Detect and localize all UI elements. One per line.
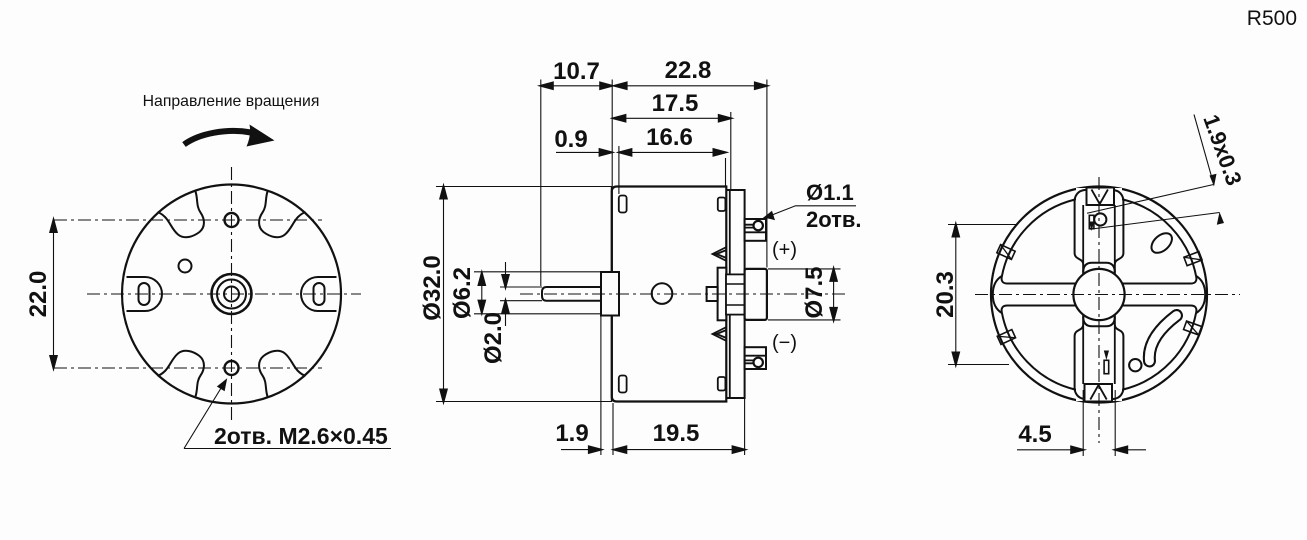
- svg-text:22.0: 22.0: [25, 271, 52, 318]
- svg-text:17.5: 17.5: [652, 90, 699, 117]
- opening bottom-left: [1002, 306, 1084, 390]
- left ear D shape: [127, 277, 163, 311]
- dim ext line can front: [618, 146, 620, 194]
- bearing flange: [718, 268, 727, 321]
- part number R500: [1247, 7, 1297, 30]
- svg-text:4.5: 4.5: [1018, 421, 1051, 448]
- end cap seam: [729, 190, 731, 398]
- top hole centerline: [54, 219, 322, 221]
- cap crimp chevron top: [713, 247, 727, 261]
- oval vent top-right: [1148, 229, 1176, 256]
- stamped vent blob top-left: [158, 192, 204, 238]
- stamped vent blob top-right: [259, 192, 305, 238]
- center shaft boss rings: [212, 274, 252, 314]
- svg-text:1.9: 1.9: [555, 420, 588, 447]
- svg-text:20.3: 20.3: [932, 271, 959, 318]
- stamped vent blob bottom-left: [158, 351, 204, 397]
- dim 17.5: [613, 117, 730, 119]
- plus terminal label: [772, 239, 797, 261]
- can crimp window rear top: [718, 198, 726, 212]
- dim ext line cap seam: [730, 112, 732, 190]
- rotation direction arrow: [184, 131, 251, 145]
- dim 22.0 line: [53, 220, 55, 368]
- rear bushing Ø7.5: [745, 269, 767, 320]
- rim crimp notch bottom-left: [997, 330, 1015, 345]
- terminal slot top: [1089, 215, 1094, 228]
- shaft Ø2.0: [542, 287, 601, 301]
- svg-text:10.7: 10.7: [553, 58, 600, 85]
- bar end flare right: [1191, 278, 1205, 312]
- left ear slot: [139, 283, 150, 305]
- dim 19.5 bottom: [744, 399, 746, 455]
- dim Ø32.0 ext lines: [436, 187, 612, 402]
- dim Ø7.5 ext lines: [768, 269, 841, 320]
- dim 1.9 bottom: [600, 317, 602, 456]
- band end flare bottom: [1076, 388, 1122, 401]
- svg-text:Ø32.0: Ø32.0: [419, 255, 446, 320]
- dim Ø6.2: [481, 272, 483, 314]
- centerline horizontal: [87, 293, 361, 295]
- centerline horizontal: [975, 294, 1240, 296]
- terminal slot bottom: [1104, 360, 1109, 373]
- dim 0.9: [556, 151, 609, 153]
- small pilot hole: [179, 260, 192, 273]
- dim ext lines shaft Ø2.0: [500, 287, 542, 301]
- shaft collar Ø6.2: [601, 272, 619, 316]
- terminal box bottom: [1085, 384, 1113, 402]
- bearing collar arch bottom: [1083, 317, 1115, 327]
- bottom hole centerline: [54, 367, 322, 369]
- inner rim circle: [1001, 197, 1197, 393]
- vent hole: [652, 283, 673, 304]
- svg-text:Ø1.1: Ø1.1: [806, 180, 854, 205]
- dim 10.7: [541, 85, 612, 87]
- opening top-left: [1002, 200, 1084, 284]
- terminal top: [745, 219, 766, 241]
- rim crimp notch top-right: [1184, 252, 1202, 266]
- dim ext line mounting face: [611, 80, 613, 187]
- dim 20.3 ext lines: [948, 225, 1016, 365]
- label 1.9x0.3 text: [1198, 111, 1247, 189]
- opening top-right: [1115, 200, 1197, 284]
- svg-text:19.5: 19.5: [653, 420, 700, 447]
- dim Ø32.0: [443, 187, 445, 402]
- label 2otv M2.6x0.45 leader: [184, 387, 222, 449]
- label 1.9x0.3 shelf line and arrows: [1194, 115, 1213, 181]
- rim crimp notch top-left: [997, 245, 1015, 260]
- model label text: [143, 93, 320, 110]
- top mounting hole: [225, 213, 239, 227]
- centerline vertical: [1098, 177, 1100, 443]
- dim ext lines collar Ø6.2: [474, 272, 601, 314]
- terminal box top: [1087, 188, 1115, 206]
- bushing circle: [1073, 269, 1124, 320]
- rim crimp notch bottom-right: [1184, 321, 1202, 335]
- front bell face: [611, 187, 613, 402]
- bearing collar arch top: [1083, 263, 1115, 273]
- terminal bottom: [745, 347, 766, 369]
- dim 20.3: [955, 225, 957, 365]
- svg-text:(+): (+): [772, 239, 797, 261]
- rear hole Ø1.1: [1094, 213, 1106, 225]
- svg-text:R500: R500: [1247, 7, 1297, 30]
- centerline horizontal: [520, 293, 848, 295]
- dim Ø7.5: [833, 269, 835, 320]
- motor can outline: [612, 187, 727, 402]
- arc slot bottom-right: [1149, 316, 1176, 362]
- bottom mounting hole: [225, 361, 239, 375]
- small hole bottom-right: [1129, 359, 1141, 371]
- bearing boss: [726, 274, 745, 314]
- shaft rear stub: [707, 287, 718, 301]
- slot arrow top: [1089, 222, 1094, 232]
- cap crimp chevron bottom: [713, 327, 727, 341]
- bar end flare left: [994, 278, 1008, 312]
- label 1.9x0.3 leaders: [1087, 185, 1220, 230]
- right ear slot: [314, 283, 325, 305]
- centerline vertical: [231, 167, 233, 420]
- svg-text:22.8: 22.8: [665, 57, 712, 84]
- can crimp window front bottom: [619, 376, 627, 393]
- stamped vent blob bottom-right: [259, 351, 305, 397]
- minus terminal label: [772, 332, 797, 354]
- dim 22.8: [615, 85, 767, 87]
- can crimp window front top: [619, 196, 627, 213]
- svg-text:Ø6.2: Ø6.2: [449, 267, 476, 319]
- dim ext line shaft tip: [540, 80, 542, 287]
- svg-text:2отв. М2.6×0.45: 2отв. М2.6×0.45: [214, 423, 388, 449]
- svg-text:16.6: 16.6: [646, 124, 693, 151]
- svg-text:(−): (−): [772, 332, 797, 354]
- body group: [419, 180, 862, 455]
- label Ø1.1 2otv leader: [763, 206, 856, 219]
- svg-text:Ø7.5: Ø7.5: [801, 266, 828, 318]
- dim ext line bushing end: [766, 80, 768, 268]
- can crimp window rear bottom: [718, 377, 726, 391]
- end cap: [726, 190, 744, 398]
- outer circle: [122, 185, 341, 404]
- dim Ø2.0: [505, 262, 507, 326]
- right ear D shape: [301, 277, 337, 311]
- svg-text:0.9: 0.9: [554, 126, 587, 153]
- svg-text:Ø2.0: Ø2.0: [480, 312, 507, 364]
- dim 4.5 ext lines: [1083, 390, 1115, 456]
- band end flare top: [1076, 188, 1122, 201]
- dim 16.6: [619, 151, 725, 153]
- dim 22.0 text: [25, 271, 52, 318]
- svg-text:2отв.: 2отв.: [806, 207, 862, 232]
- inner strip lines: [1083, 205, 1115, 384]
- dim ext line can rear: [725, 158, 727, 187]
- dim 4.5: [1017, 449, 1146, 451]
- label 2otv M2.6x0.45 text: [214, 423, 388, 449]
- slot arrow bottom: [1104, 351, 1109, 361]
- opening bottom-right: [1115, 306, 1197, 390]
- outer circle: [991, 187, 1207, 403]
- svg-text:Направление вращения: Направление вращения: [143, 93, 320, 110]
